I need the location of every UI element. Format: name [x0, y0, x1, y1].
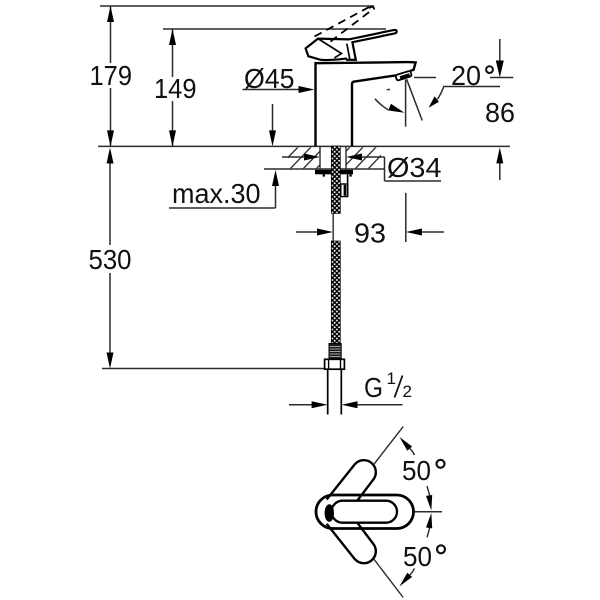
svg-text:50: 50	[402, 455, 431, 486]
svg-text:530: 530	[89, 244, 132, 275]
svg-text:50: 50	[403, 541, 432, 572]
svg-text:Ø34: Ø34	[387, 152, 442, 183]
svg-text:2: 2	[403, 382, 412, 401]
svg-text:179: 179	[90, 60, 133, 91]
svg-text:149: 149	[154, 73, 197, 104]
svg-text:20: 20	[451, 60, 481, 91]
svg-text:1: 1	[387, 369, 396, 388]
svg-text:86: 86	[485, 97, 515, 128]
svg-text:G: G	[364, 372, 383, 403]
svg-text:max.30: max.30	[172, 178, 261, 209]
svg-text:93: 93	[354, 218, 386, 249]
svg-text:Ø45: Ø45	[244, 63, 295, 94]
